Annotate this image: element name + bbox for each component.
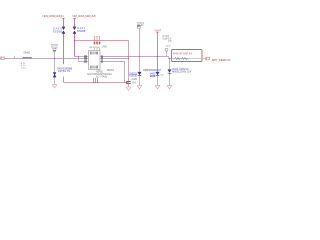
svg-text:ESD9B: ESD9B [150,76,156,78]
svg-text:ESD9B: ESD9B [77,31,85,33]
svg-text:-01ST5G: -01ST5G [129,76,138,78]
svg-text:C400: C400 [132,79,138,81]
svg-text:0402: 0402 [166,45,172,47]
svg-text:R406 0R DNP R4: R406 0R DNP R4 [173,54,193,56]
svg-text:D400: D400 [53,29,62,31]
svg-text:NET_VDDA_MAIN_1V8: NET_VDDA_MAIN_1V8 [73,14,96,18]
svg-text:U400: U400 [102,45,108,48]
svg-text:.0ST5G 5V: .0ST5G 5V [57,70,70,73]
svg-text:DNP04: DNP04 [107,70,115,72]
svg-text:FB400: FB400 [24,52,31,55]
svg-text:D402 CM1213-01ST: D402 CM1213-01ST [143,70,161,72]
svg-text:100: 100 [21,68,26,70]
svg-text:104: 104 [132,83,137,85]
svg-text:ESD9B: ESD9B [53,32,62,34]
svg-text:NET1_CONN_GND_IN: NET1_CONN_GND_IN [43,14,64,18]
svg-text:MM3Z10VB 10V: MM3Z10VB 10V [172,70,191,73]
svg-text:10V: 10V [160,74,164,76]
svg-text:D401: D401 [77,28,85,30]
svg-text:BATT_THERM <8>: BATT_THERM <8> [212,58,231,62]
